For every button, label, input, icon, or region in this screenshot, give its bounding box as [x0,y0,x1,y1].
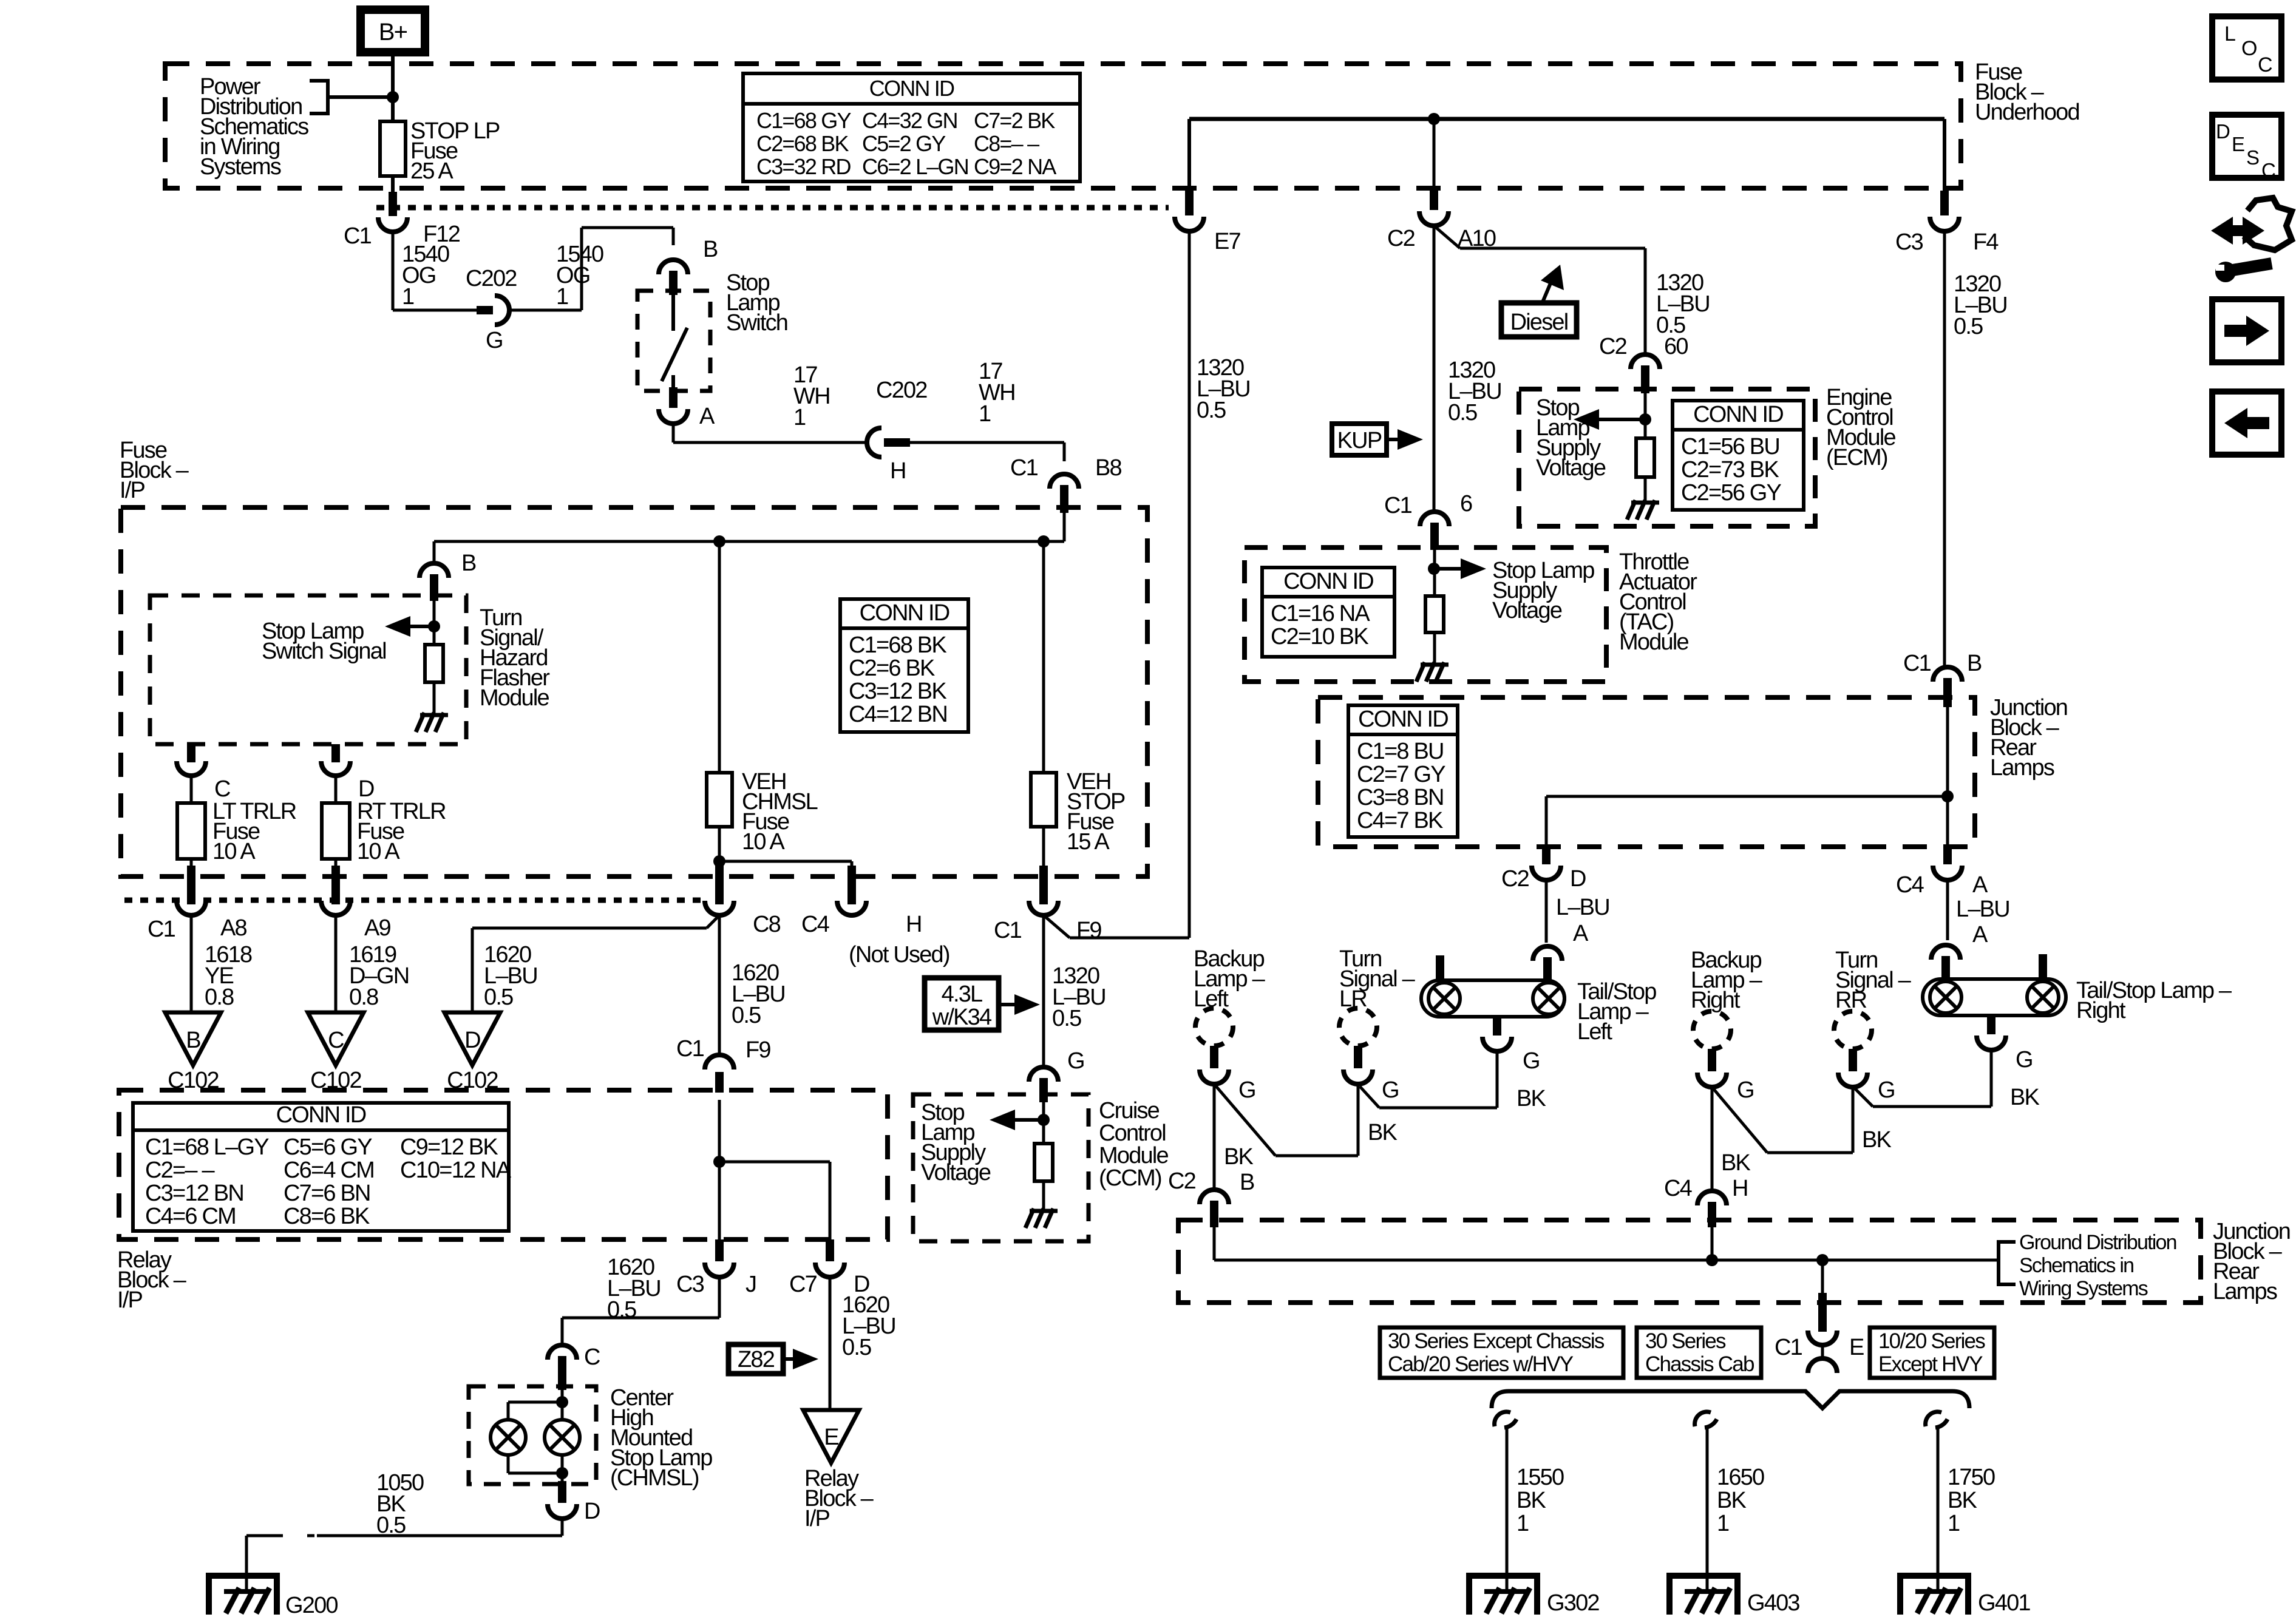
node ECM stop lamp voltage [1639,413,1651,425]
wire D down [561,1519,564,1536]
wire into CHMSL [561,1390,564,1420]
wire F9 down to CCM [1042,915,1045,1067]
wire C8 to relay F9 [718,915,721,1055]
svg-text:D: D [464,1028,480,1053]
svg-text:C1=68 L–GY: C1=68 L–GY [145,1134,269,1160]
wire A to C202 H [673,441,866,444]
svg-text:Module: Module [1619,629,1688,655]
node CHMSL out [556,1467,568,1479]
label 1750 BK 1 [1948,1465,1995,1536]
arrow 4.3L [999,994,1040,1015]
wire C8 to triangle D [472,927,707,930]
node CHMSL fuse tap [713,535,725,547]
connector C202 H [867,428,881,457]
svg-text:I/P: I/P [120,478,145,503]
stub G tail right [1987,1015,1995,1034]
wire F4 down long [1943,231,1946,667]
label turn signal LR [1339,946,1416,1012]
svg-text:C3=12 BN: C3=12 BN [145,1181,243,1206]
connector C3 F4 [1930,217,1959,231]
svg-text:1650: 1650 [1717,1465,1764,1490]
connector C4 H rear [1697,1191,1727,1205]
lamp turn signal LR [1339,1008,1377,1046]
svg-text:Schematics in: Schematics in [2019,1254,2133,1277]
stub B flasher [430,574,438,601]
svg-text:Lamps: Lamps [1990,755,2054,781]
svg-text:F4: F4 [1973,229,1999,255]
svg-text:0.5: 0.5 [1954,314,1983,339]
connector C202 G [495,296,509,325]
connector G backup right [1697,1073,1727,1087]
stub C202 H [884,438,910,447]
wire CCM internal [1042,1099,1045,1144]
label stop lamp supply voltage TAC [1492,558,1594,623]
connector C4 H not used [837,901,866,915]
stub B8 [1060,485,1068,513]
stub A9 [331,866,340,904]
svg-text:G: G [1382,1077,1399,1103]
svg-text:30 Series: 30 Series [1645,1329,1726,1353]
switch fixed contact [671,295,675,331]
svg-text:Chassis Cab: Chassis Cab [1645,1352,1754,1376]
stub C1 6 [1430,523,1439,550]
svg-text:Switch Signal: Switch Signal [262,639,386,664]
svg-text:C9=2 NA: C9=2 NA [974,154,1056,179]
lamp turn signal RR [1834,1011,1872,1049]
connector G turn LR [1343,1070,1373,1084]
connector G tail right [1977,1036,2006,1050]
svg-text:C1=8 BU: C1=8 BU [1357,739,1444,764]
svg-text:C3: C3 [676,1272,704,1297]
svg-text:1: 1 [556,284,568,310]
fuse STOP LP 25A [380,121,406,176]
wire down to C2/60 [1644,248,1647,354]
connector G turn RR [1838,1073,1867,1087]
svg-text:C4: C4 [1896,872,1924,898]
svg-text:0.5: 0.5 [842,1335,871,1360]
stub tail right aux [2039,954,2047,980]
label 1540 OG 1 [402,242,449,310]
label 1050 BK 0.5 [376,1470,424,1538]
node ground bus 2 [1816,1254,1829,1266]
svg-text:E: E [824,1425,838,1450]
svg-text:25 A: 25 A [410,158,453,184]
svg-text:BK: BK [2010,1085,2040,1110]
svg-text:C1: C1 [344,223,372,249]
svg-text:E: E [2232,133,2244,155]
stub C2 D [1542,847,1550,864]
label 1540 OG 1 right [556,242,603,310]
svg-text:10 A: 10 A [212,839,256,864]
stub E7 [1185,191,1194,215]
svg-text:(ECM): (ECM) [1826,445,1887,470]
ground CCM internal [1025,1209,1058,1228]
svg-text:BK: BK [1717,1488,1747,1513]
wire LR riser [1357,1084,1360,1156]
svg-text:D: D [358,776,374,802]
wire drop to B [672,228,675,245]
svg-text:C202: C202 [876,378,927,403]
ground G200 [209,1576,277,1615]
svg-text:Switch: Switch [726,310,787,336]
svg-text:CONN ID: CONN ID [869,76,954,101]
svg-text:G302: G302 [1547,1590,1599,1616]
stub D flasher [331,744,340,762]
stub B into switch [669,271,678,295]
tail/stop lamp right housing [1923,979,2066,1015]
ground ECM internal [1627,500,1659,520]
label 1619 D-GN 0.8 [349,942,409,1010]
throttle actuator control dashed box [1245,547,1606,682]
svg-text:E7: E7 [1214,229,1241,254]
wire to flasher B [433,541,436,563]
svg-text:C4=32 GN: C4=32 GN [862,108,957,133]
svg-text:C8: C8 [753,912,781,937]
table CONN ID relay block [133,1102,512,1231]
node STOP fuse tap [1038,535,1050,547]
wire bus to F4 [1943,119,1946,193]
wire relay branch down [829,1162,832,1239]
label tail stop lamp left [1577,979,1656,1045]
relay block I/P dashed box [119,1090,888,1239]
svg-text:L–BU: L–BU [1956,897,2009,922]
wire relay branch [719,1161,830,1164]
connector C4 A [1933,866,1962,880]
stub C1 B [1943,678,1952,707]
arrow Z82 [783,1349,818,1369]
svg-text:H: H [1732,1176,1748,1201]
Z82 option box [729,1344,783,1374]
stub backup right [1708,1049,1716,1071]
wire relay internal [718,1100,721,1239]
svg-text:15 A: 15 A [1067,829,1110,855]
switch blade [662,328,687,381]
wire J down [718,1277,721,1318]
svg-text:G: G [1067,1048,1084,1074]
wire ECM to ground [1644,477,1647,501]
fuse RT TRLR 10A [322,803,350,859]
svg-text:0.5: 0.5 [1448,400,1477,425]
connector C8 [705,901,734,915]
ground G403 [1669,1576,1737,1615]
wire C to LT fuse [190,776,193,803]
svg-text:C1: C1 [1775,1335,1802,1360]
connector C1 E upper [1808,1331,1837,1345]
fuse VEH CHMSL 10A [707,773,732,827]
svg-text:B: B [703,237,718,262]
svg-text:A9: A9 [364,915,391,941]
stub C4 H [1708,1202,1716,1227]
svg-text:0.8: 0.8 [349,985,378,1010]
svg-text:B: B [461,551,476,576]
connector line dotted C1 row [124,898,703,903]
svg-text:(CHMSL): (CHMSL) [610,1465,699,1491]
wire F12 down [392,232,395,310]
wire A to tail right [1946,880,1949,940]
svg-text:Module: Module [480,685,549,711]
svg-text:1: 1 [979,401,991,427]
label 1620 L-BU 0.5 J [607,1255,661,1323]
svg-text:Left: Left [1577,1019,1612,1045]
wire join bulbs [508,1472,562,1475]
wire to CHMSL fuse [718,541,721,773]
wire to G302 [1506,1425,1509,1592]
wire right bulb bottom [561,1455,564,1481]
label 1550 BK 1 [1517,1465,1564,1536]
svg-text:G: G [1737,1077,1754,1103]
svg-text:B: B [186,1028,200,1053]
svg-text:C7=2 BK: C7=2 BK [974,108,1055,133]
svg-text:G: G [1523,1048,1540,1074]
label VEH CHMSL fuse [742,769,818,855]
svg-text:C3: C3 [1895,229,1923,255]
wire C8 diagonal [707,915,719,928]
wire bus to E7 [1187,119,1191,193]
4.3L w/K34 option box [925,978,999,1030]
wire bus I/P [434,540,1064,543]
svg-text:B: B [1240,1170,1254,1195]
label 1320 L-BU 0.5 F9 [1052,963,1106,1031]
svg-text:L: L [2224,22,2235,46]
wire A10 to ECM drop [1460,247,1645,250]
svg-text:10/20 Series: 10/20 Series [1878,1329,1985,1353]
wire D to RT fuse [335,776,338,803]
stub turn LR [1354,1046,1362,1068]
wire down to C CHMSL [561,1318,564,1345]
wire J to CHMSL [562,1317,719,1320]
wire to G403 [1706,1425,1709,1592]
svg-text:F9: F9 [1076,918,1101,943]
wire inside TAC [1433,550,1436,596]
label 1618 YE 0.8 [205,942,252,1010]
triangle off-page D [444,1012,500,1065]
stub G tail left [1493,1016,1501,1036]
svg-text:Z82: Z82 [738,1347,775,1372]
connector C2 60 [1631,354,1660,369]
turn signal hazard flasher module dashed box [150,595,466,744]
svg-text:Lamps: Lamps [2213,1279,2277,1304]
connector A [659,409,688,424]
svg-text:BK: BK [1224,1144,1254,1170]
svg-text:C1: C1 [1903,651,1931,676]
wire backup left ground [1213,1084,1216,1191]
wire fuse to C1 [391,176,395,193]
svg-text:1: 1 [1517,1511,1529,1536]
junction block rear lamps dashed box upper [1318,697,1975,847]
svg-text:CONN ID: CONN ID [860,600,949,626]
table CONN ID ECM [1673,401,1804,510]
wire to STOP fuse [1042,541,1045,773]
svg-text:G: G [1238,1077,1255,1103]
svg-text:Ground Distribution: Ground Distribution [2019,1231,2176,1254]
svg-text:C8=6 BK: C8=6 BK [284,1204,370,1229]
wire flasher to ground [433,682,436,714]
svg-text:0.8: 0.8 [205,985,234,1010]
svg-text:BK: BK [1721,1150,1751,1176]
option box 30 series chassis cab [1637,1327,1761,1378]
svg-text:D: D [2216,120,2230,143]
svg-text:H: H [906,912,922,937]
connector C1 A8 [177,901,206,915]
wire to B connector [582,226,673,229]
svg-text:C2: C2 [1501,866,1529,892]
label 1620 L-BU 0.5 C8 [732,960,785,1028]
wire F9 diagonal [1044,915,1070,938]
connector C1 F12 [378,217,407,232]
ground TAC internal [1416,662,1449,682]
triangle off-page E [803,1410,859,1463]
splice hook G401 [1926,1412,1948,1428]
wire ground bus rear [1214,1259,1999,1262]
svg-text:Systems: Systems [200,154,281,180]
resistor CCM load [1034,1144,1053,1181]
svg-text:CONN ID: CONN ID [276,1102,366,1128]
svg-text:C10=12 NA: C10=12 NA [400,1158,512,1183]
svg-text:C1: C1 [1010,455,1038,481]
triangle off-page C [308,1012,364,1065]
svg-text:Voltage: Voltage [921,1160,991,1185]
ground flasher internal [416,713,448,732]
label 1320 L-BU 0.5 ECM [1656,270,1710,338]
wire backup right diagonal [1712,1087,1767,1153]
wire E7 down long [1188,231,1191,938]
svg-text:G403: G403 [1747,1590,1799,1616]
wire B+ to fuse [391,56,395,121]
connector C2 D [1532,866,1561,880]
wire CHMSL ground run [317,1534,562,1537]
node B+ branch [387,91,399,103]
svg-text:J: J [746,1272,756,1297]
brace ground split [1492,1391,1969,1408]
label junction block rear lamps [1990,695,2067,781]
svg-text:Right: Right [1691,988,1741,1013]
svg-text:H: H [890,458,906,484]
svg-text:C: C [2258,53,2272,76]
svg-text:(CCM): (CCM) [1099,1165,1161,1191]
stub C8 [715,866,724,904]
wire down to triangle D [471,928,474,1012]
svg-text:A: A [1573,921,1589,946]
svg-text:C: C [214,776,230,802]
svg-text:C1=56 BU: C1=56 BU [1681,434,1779,459]
wire CHMSL fuse down [718,827,721,861]
wire to C202 G [393,309,477,312]
wire D to tail left [1545,880,1548,943]
stub A tail right [1941,956,1950,981]
fuse VEH STOP 15A [1031,773,1056,827]
Diesel option box [1501,303,1577,337]
label junction block rear lamps lower [2213,1219,2290,1304]
bracket power distribution [310,81,328,114]
label power distribution schematics [200,74,308,180]
svg-text:Underhood: Underhood [1975,100,2079,125]
label relay block IP E [804,1466,874,1531]
svg-text:C: C [2261,159,2275,181]
svg-text:BK: BK [1368,1120,1398,1145]
svg-text:O: O [2241,37,2257,60]
svg-text:w/K34: w/K34 [932,1005,992,1030]
node TAC stop lamp voltage [1428,563,1440,575]
stub C2 B [1210,1201,1218,1227]
svg-text:1750: 1750 [1948,1465,1995,1490]
label 1620 L-BU 0.5 D [484,942,537,1010]
wire dashed to G200 [246,1534,314,1537]
wire STOP fuse down [1042,827,1045,868]
label 17 WH 1 left [793,362,830,430]
battery feed B+ box [361,10,425,52]
wire A9 to triangle C [335,915,338,1012]
wire D to triangle E [829,1277,832,1410]
wire bus underhood [1189,117,1944,121]
svg-text:Control: Control [1099,1120,1166,1146]
stub A10 [1430,188,1438,210]
option box 10/20 series except HVY [1870,1327,1994,1378]
svg-text:1: 1 [1948,1511,1960,1536]
svg-text:E: E [1849,1335,1864,1360]
stub tail left aux [1436,955,1444,981]
svg-text:C2=7 GY: C2=7 GY [1357,762,1445,787]
arrow stop lamp supply voltage TAC [1434,558,1486,579]
svg-text:A8: A8 [220,915,247,941]
svg-text:C6=2 L–GN: C6=2 L–GN [862,154,968,179]
svg-text:Right: Right [2076,998,2126,1023]
wire up to switch [580,228,583,310]
stub turn RR [1849,1049,1857,1071]
wire junction internal [1946,707,1949,847]
wire RR ground run [1767,1151,1853,1154]
option box 30 series except chassis cab [1380,1327,1623,1378]
label ECM [1826,385,1895,470]
wire LT fuse down [190,859,193,869]
svg-text:C3=8 BN: C3=8 BN [1357,785,1444,810]
svg-text:C2: C2 [1599,334,1627,359]
svg-text:D: D [584,1499,600,1524]
svg-text:G: G [486,328,503,353]
connector B stop lamp switch [659,260,688,274]
wire backup right ground [1711,1087,1714,1192]
wire after C202 [509,309,582,312]
arrow diesel [1541,265,1564,303]
connector C7 D [815,1263,844,1277]
label relay block I/P [117,1247,187,1313]
svg-text:C2=68 BK: C2=68 BK [756,131,849,156]
wire CCM to ground [1042,1181,1045,1210]
label turn signal RR [1835,947,1912,1013]
label VEH STOP fuse [1067,769,1125,855]
svg-text:C4=12 BN: C4=12 BN [849,702,947,727]
wire backup left diagonal [1214,1084,1275,1156]
lamp backup right [1693,1011,1731,1049]
svg-text:G200: G200 [285,1593,338,1617]
label 1320 L-BU 0.5 F4 [1954,271,2007,339]
svg-text:C4: C4 [1664,1176,1693,1201]
svg-text:C9=12 BK: C9=12 BK [400,1134,498,1160]
label stop lamp supply voltage CCM [921,1100,991,1185]
svg-text:Except HVY: Except HVY [1878,1352,1983,1376]
label backup lamp left [1194,946,1266,1012]
connector C CHMSL [548,1345,577,1360]
svg-text:C2=– –: C2=– – [145,1158,215,1183]
svg-text:B8: B8 [1095,455,1122,481]
svg-text:B: B [1967,651,1982,676]
mid conn table CONN ID I/P [840,599,968,732]
stop lamp switch dashed box [637,291,710,391]
svg-text:1: 1 [1717,1511,1729,1536]
wire C8 drop [718,861,721,868]
svg-text:C5=6 GY: C5=6 GY [284,1134,372,1160]
stub A tail left [1543,957,1552,982]
stub F4 [1940,191,1949,215]
